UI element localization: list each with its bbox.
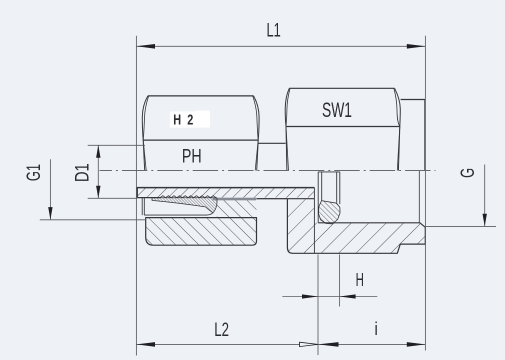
svg-text:H: H — [173, 111, 181, 128]
svg-text:D1: D1 — [70, 163, 93, 182]
svg-text:G1: G1 — [22, 164, 44, 181]
svg-text:L2: L2 — [214, 318, 229, 340]
svg-text:H: H — [356, 270, 364, 290]
svg-text:2: 2 — [187, 111, 193, 128]
svg-text:L1: L1 — [266, 19, 280, 41]
svg-text:i: i — [375, 318, 378, 339]
svg-text:SW1: SW1 — [322, 98, 352, 122]
svg-text:G: G — [456, 168, 478, 178]
svg-text:PH: PH — [182, 145, 202, 167]
